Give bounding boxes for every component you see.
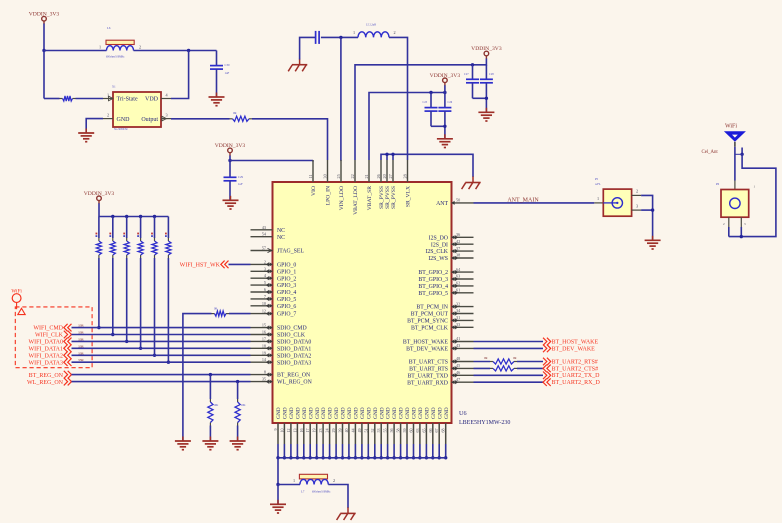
capacitor C (VBAT_LDO b) bbox=[480, 73, 494, 83]
svg-text:31: 31 bbox=[456, 315, 460, 320]
svg-text:68: 68 bbox=[441, 429, 446, 433]
svg-text:2: 2 bbox=[393, 30, 395, 35]
wire node to ferrite bead FB2 bbox=[278, 484, 300, 486]
pin 12 GND (bottom) bbox=[286, 407, 295, 444]
node junction SR_PVSS b bbox=[391, 153, 394, 156]
svg-text:GND: GND bbox=[431, 407, 437, 419]
pin 34 BT_PCM_OUT (right) bbox=[411, 308, 474, 317]
pin 36 I2S_DO (right) bbox=[429, 232, 474, 241]
svg-text:26: 26 bbox=[376, 174, 381, 178]
svg-text:I2S_WS: I2S_WS bbox=[428, 256, 448, 262]
wire pull-up R33 drop bbox=[140, 217, 142, 349]
svg-text:48: 48 bbox=[456, 356, 460, 361]
pin 33 BT_PCM_CLK (right) bbox=[411, 322, 474, 331]
svg-text:23: 23 bbox=[318, 429, 323, 433]
wire capacitor to ground bbox=[216, 69, 218, 97]
node junction pull-up to SDIO line bbox=[139, 347, 142, 350]
capacitor C (VIO decoupling) bbox=[224, 175, 244, 186]
svg-text:7: 7 bbox=[264, 294, 266, 299]
node junction on GND bus bbox=[412, 456, 415, 459]
svg-text:2: 2 bbox=[107, 113, 109, 118]
svg-text:65: 65 bbox=[421, 429, 426, 433]
wire bus down to ground node bbox=[277, 458, 279, 485]
wire SR_PVSS bus to ground bbox=[381, 154, 473, 177]
svg-text:C25: C25 bbox=[423, 101, 428, 104]
svg-text:BT_UART_RTS: BT_UART_RTS bbox=[409, 367, 448, 373]
pin 12 GPIO_7 (left) bbox=[251, 309, 297, 318]
pin 51 GND (bottom) bbox=[363, 407, 372, 444]
svg-text:BT_UART2_RTS#: BT_UART2_RTS# bbox=[552, 359, 598, 365]
node junction SR_PVSS a bbox=[385, 153, 388, 156]
wire GND pin to bus bbox=[290, 444, 292, 458]
svg-text:18: 18 bbox=[262, 343, 266, 348]
wire GND pin to bus bbox=[445, 444, 447, 458]
svg-text:VDDIN_3V3: VDDIN_3V3 bbox=[84, 191, 115, 197]
svg-text:10K: 10K bbox=[214, 404, 219, 407]
svg-text:VDDIN_3V3: VDDIN_3V3 bbox=[215, 143, 246, 149]
wire GND pin to bus bbox=[425, 444, 427, 458]
pin 16 SDIO_CLK (left) bbox=[251, 330, 306, 339]
connector P5 (main antenna) bbox=[595, 177, 632, 216]
svg-text:1: 1 bbox=[353, 30, 355, 35]
node junction shield bbox=[651, 208, 654, 211]
svg-text:LBEE5HY1MW-230: LBEE5HY1MW-230 bbox=[459, 420, 510, 426]
svg-text:LPO_IN: LPO_IN bbox=[326, 186, 332, 205]
node junction (to tri-state VDD) bbox=[187, 49, 190, 52]
wire GND pin to bus bbox=[309, 444, 311, 458]
svg-text:GPIO_5: GPIO_5 bbox=[277, 297, 296, 303]
pin 3 GPIO_1 (left) bbox=[251, 266, 297, 275]
node junction bottom (mid pair) bbox=[443, 125, 446, 128]
node junction on GND bus bbox=[315, 456, 318, 459]
svg-text:57: 57 bbox=[262, 246, 266, 251]
svg-text:53: 53 bbox=[376, 429, 381, 433]
svg-text:GND: GND bbox=[296, 407, 302, 419]
antenna WiFi label bbox=[725, 124, 737, 130]
node junction on pull-up bus bbox=[139, 215, 142, 218]
svg-text:10: 10 bbox=[279, 429, 284, 433]
svg-text:SR_PVSS: SR_PVSS bbox=[391, 186, 397, 209]
wire BT_REG_ON pulldown drop bbox=[209, 375, 211, 441]
svg-text:55: 55 bbox=[383, 429, 388, 433]
wire ground up to capacitor bbox=[300, 37, 316, 59]
pin 46 BT_UART_TXD (right) bbox=[407, 370, 473, 379]
svg-text:44: 44 bbox=[350, 429, 355, 433]
node WIFI_DATA3 label bbox=[28, 358, 71, 366]
svg-text:1: 1 bbox=[597, 196, 599, 201]
svg-text:BT_DEV_WAKE: BT_DEV_WAKE bbox=[552, 346, 596, 352]
svg-text:VDDIN_3V3: VDDIN_3V3 bbox=[430, 73, 461, 79]
resistor R32 (pull-up) bbox=[123, 233, 129, 258]
svg-text:16: 16 bbox=[299, 429, 304, 433]
pin 35 WL_REG_ON (left) bbox=[251, 377, 313, 386]
svg-text:56: 56 bbox=[389, 429, 394, 433]
wire GND bus bbox=[278, 457, 446, 459]
pin 17 GND (bottom) bbox=[305, 407, 314, 444]
power port VDDIN_3V3 (SDIO pull-ups) bbox=[84, 191, 115, 204]
svg-text:C27: C27 bbox=[464, 73, 469, 76]
svg-text:45: 45 bbox=[456, 363, 460, 368]
pin 17 SDIO_DATA0 (left) bbox=[251, 336, 312, 345]
node WL_REG_ON junction bbox=[236, 380, 239, 383]
svg-text:BT_GPIO_2: BT_GPIO_2 bbox=[418, 270, 448, 276]
resistor R (LPO series) bbox=[230, 111, 253, 121]
wire pull-up R31 drop bbox=[112, 217, 114, 335]
node junction at top rail bbox=[42, 49, 45, 52]
svg-text:43: 43 bbox=[262, 225, 266, 230]
wire GND pin to bus bbox=[393, 444, 395, 458]
pin 44 GND (bottom) bbox=[350, 407, 359, 444]
svg-text:Output: Output bbox=[141, 117, 158, 123]
oscillator U (Tri-State VDD / GND Output) bbox=[112, 85, 161, 131]
svg-text:BT_REG_ON: BT_REG_ON bbox=[277, 373, 311, 379]
wire resistor to BT_UART2_CTS# label bbox=[517, 367, 543, 369]
node junction on GND bus bbox=[341, 456, 344, 459]
svg-text:GND: GND bbox=[334, 407, 340, 419]
pin 27 SR_PVSS (top) bbox=[388, 160, 397, 209]
wire WIFI_HST_WK to GPIO_0 bbox=[229, 263, 251, 265]
node junction on GND bus bbox=[438, 456, 441, 459]
svg-text:SDIO_DATA3: SDIO_DATA3 bbox=[277, 360, 311, 366]
svg-text:SDIO_DATA0: SDIO_DATA0 bbox=[277, 340, 311, 346]
svg-text:3: 3 bbox=[165, 113, 167, 118]
svg-text:33R: 33R bbox=[78, 337, 84, 341]
svg-text:GPIO_6: GPIO_6 bbox=[277, 304, 296, 310]
svg-text:C26: C26 bbox=[448, 101, 453, 104]
svg-text:41: 41 bbox=[456, 336, 460, 341]
svg-text:2: 2 bbox=[139, 45, 141, 50]
svg-text:GND: GND bbox=[360, 407, 366, 419]
wire GND pin to bus bbox=[342, 444, 344, 458]
node junction on GND bus bbox=[296, 456, 299, 459]
svg-text:33R: 33R bbox=[78, 351, 84, 355]
svg-text:WIFI_DATA1: WIFI_DATA1 bbox=[28, 346, 63, 352]
pin 43 BT_DEV_WAKE (right) bbox=[406, 343, 473, 352]
svg-text:GND: GND bbox=[418, 407, 424, 419]
capacitor C (osc rail decoupling) bbox=[210, 63, 230, 75]
svg-text:GND: GND bbox=[399, 407, 405, 419]
pin 22 VBAT_LDO (top) bbox=[350, 160, 359, 215]
wire BT_UART_CTS to resistor bbox=[474, 361, 491, 363]
wire resistor to ground drop bbox=[183, 314, 212, 441]
svg-text:13: 13 bbox=[292, 429, 297, 433]
svg-text:16: 16 bbox=[262, 330, 266, 335]
svg-text:600ohm/100MHz: 600ohm/100MHz bbox=[106, 56, 125, 59]
pin 18 SDIO_DATA1 (left) bbox=[251, 343, 312, 352]
svg-text:0R: 0R bbox=[233, 111, 237, 115]
svg-text:33R: 33R bbox=[78, 344, 84, 348]
op IC U6 body bbox=[273, 182, 511, 426]
pin 31 BT_PCM_SYNC (right) bbox=[407, 315, 473, 324]
svg-text:SG-3030CM: SG-3030CM bbox=[114, 128, 128, 131]
svg-text:GND: GND bbox=[315, 407, 321, 419]
ground (bar) under VIO cap bbox=[223, 196, 239, 209]
wire VDDIN_3V3 stem down bbox=[43, 24, 45, 51]
pin 49 GND (bottom) bbox=[357, 407, 366, 444]
pin 19 GND (bottom) bbox=[312, 407, 321, 444]
wire pins to loop bbox=[729, 227, 742, 237]
svg-text:C29: C29 bbox=[238, 175, 244, 179]
svg-text:WL_REG_ON: WL_REG_ON bbox=[277, 380, 313, 386]
svg-text:BT_UART_CTS: BT_UART_CTS bbox=[409, 360, 448, 366]
svg-text:WIFI_CLK: WIFI_CLK bbox=[35, 333, 64, 339]
pin 2 of oscillator bbox=[103, 113, 113, 119]
node junction loop bbox=[740, 235, 743, 238]
svg-text:BT_PCM_OUT: BT_PCM_OUT bbox=[411, 312, 449, 318]
svg-text:8: 8 bbox=[264, 370, 266, 375]
svg-text:10: 10 bbox=[262, 301, 266, 306]
node junction on GND bus bbox=[380, 456, 383, 459]
wire BT_UART_RXD bbox=[474, 381, 544, 383]
pin 62 BT_GPIO_4 (right) bbox=[418, 281, 473, 290]
svg-text:GND: GND bbox=[117, 117, 131, 123]
wire oscillator GND pin to ground bbox=[86, 119, 103, 133]
wire WL_REG_ON pulldown drop bbox=[237, 382, 239, 441]
wire BT_UART_TXD bbox=[474, 374, 544, 376]
svg-text:60: 60 bbox=[409, 429, 414, 433]
svg-text:BT_GPIO_5: BT_GPIO_5 bbox=[418, 291, 448, 297]
pin 61 BT_GPIO_5 (right) bbox=[418, 288, 473, 297]
svg-text:30: 30 bbox=[322, 174, 327, 178]
wire capacitor to junction bbox=[321, 36, 358, 38]
node junction on pull-up bus bbox=[111, 215, 114, 218]
node junction on GND bus bbox=[302, 456, 305, 459]
node BT_REG_ON junction bbox=[209, 373, 212, 376]
resistor R (WL_REG_ON pulldown) bbox=[235, 399, 246, 426]
svg-text:BT_GPIO_3: BT_GPIO_3 bbox=[418, 277, 448, 283]
capacitor C (series, top filter) bbox=[316, 31, 320, 44]
node junction pull-up to SDIO line bbox=[167, 361, 170, 364]
node junction pull-up to SDIO line bbox=[153, 354, 156, 357]
wire WIFI_DATA1 to SDIO pin bbox=[72, 344, 251, 348]
node junction on GND bus bbox=[373, 456, 376, 459]
ground (bar) GPIO_7 bbox=[175, 437, 191, 450]
capacitor C (VBAT_SR a) bbox=[423, 101, 438, 111]
ground (bar) right pair bbox=[478, 108, 494, 121]
svg-text:24: 24 bbox=[325, 429, 330, 433]
svg-text:SDIO_CLK: SDIO_CLK bbox=[277, 333, 306, 339]
svg-text:NC: NC bbox=[277, 235, 285, 241]
ground (bar) mid pair bbox=[437, 134, 453, 147]
wire VDD branch down to tri-state pin 4 bbox=[171, 51, 189, 99]
pin 26 SR_PVSS (top) bbox=[376, 160, 385, 209]
pin 28 SR_VLX (top) bbox=[402, 160, 411, 207]
svg-text:20: 20 bbox=[382, 174, 387, 178]
pin 5 GPIO_3 (left) bbox=[251, 280, 297, 289]
pin 10 GPIO_6 (left) bbox=[251, 301, 297, 310]
node WIFI_DATA2 label bbox=[28, 352, 71, 360]
svg-text:L5 2.2uH: L5 2.2uH bbox=[366, 24, 376, 27]
ground (bar) digital bbox=[270, 500, 286, 513]
svg-text:VDD: VDD bbox=[145, 97, 159, 103]
svg-text:27: 27 bbox=[388, 174, 393, 178]
svg-text:33: 33 bbox=[456, 322, 460, 327]
node junction VIO bbox=[228, 159, 231, 162]
pin 13 GND (bottom) bbox=[292, 407, 301, 444]
svg-text:C28: C28 bbox=[489, 73, 494, 76]
svg-text:GND: GND bbox=[366, 407, 372, 419]
pin 3 of connector P6 bbox=[741, 217, 746, 227]
svg-text:33R: 33R bbox=[78, 358, 84, 362]
svg-text:X1: X1 bbox=[112, 85, 116, 89]
svg-text:GND: GND bbox=[437, 407, 443, 419]
svg-text:0R: 0R bbox=[484, 356, 488, 360]
wire WIFI_DATA2 to SDIO pin bbox=[72, 351, 251, 355]
pin 4 GPIO_2 (left) bbox=[251, 273, 297, 282]
svg-text:51: 51 bbox=[363, 429, 368, 433]
node junction on pull-up bus bbox=[125, 215, 128, 218]
pin 47 BT_UART_RXD (right) bbox=[407, 377, 473, 386]
svg-text:GND: GND bbox=[405, 407, 411, 419]
ground (earth) left of C bbox=[288, 59, 307, 72]
svg-text:5: 5 bbox=[264, 280, 266, 285]
node BT_UART2_CTS# label bbox=[543, 365, 598, 373]
svg-text:I2S_DO: I2S_DO bbox=[429, 235, 448, 241]
pin 58 GND (bottom) bbox=[396, 407, 405, 444]
node junction pull-up to SDIO line bbox=[125, 340, 128, 343]
svg-text:33R: 33R bbox=[78, 331, 84, 335]
svg-text:32: 32 bbox=[456, 301, 460, 306]
node junction pull-up to SDIO line bbox=[97, 326, 100, 329]
svg-text:JTAG_SEL: JTAG_SEL bbox=[277, 249, 304, 255]
capacitor C (VBAT_LDO a) bbox=[464, 73, 479, 83]
svg-text:36: 36 bbox=[456, 232, 460, 237]
wire top rail to ferrite bead bbox=[44, 50, 107, 52]
wire cap leads (right pair) bbox=[473, 65, 487, 80]
ground (bar) WL_REG_ON bbox=[230, 437, 246, 450]
svg-text:1: 1 bbox=[99, 45, 101, 50]
power port VDDIN_3V3 (top left) bbox=[29, 11, 60, 24]
svg-text:46: 46 bbox=[456, 370, 460, 375]
wire GND pin to bus bbox=[406, 444, 408, 458]
svg-text:I2S_DI: I2S_DI bbox=[431, 242, 448, 248]
wire GND pin to bus bbox=[387, 444, 389, 458]
pin 64 BT_GPIO_2 (right) bbox=[418, 267, 473, 276]
pin 32 BT_PCM_IN (right) bbox=[416, 301, 473, 310]
pin 1 of connector P5 bbox=[594, 196, 603, 203]
power port VDDIN_3V3 (VIO) bbox=[215, 143, 246, 156]
svg-text:P5: P5 bbox=[595, 177, 599, 181]
node junction stem/rail bbox=[443, 91, 446, 94]
wire pull-up R35 drop bbox=[167, 217, 169, 363]
node junction on GND bus bbox=[444, 456, 447, 459]
wire left rail down to resistor bbox=[44, 51, 60, 99]
wire GND pin to bus bbox=[380, 444, 382, 458]
pin 15 SDIO_CMD (left) bbox=[251, 323, 307, 332]
svg-text:33R: 33R bbox=[78, 324, 84, 328]
ferrite bead FB1 bbox=[44, 26, 141, 59]
node junction on GND bus bbox=[392, 456, 395, 459]
svg-text:ANT_MAIN: ANT_MAIN bbox=[507, 197, 539, 203]
wire GND pin to bus bbox=[413, 444, 415, 458]
wire GND pin to bus bbox=[329, 444, 331, 458]
svg-text:29: 29 bbox=[331, 429, 336, 433]
pin 30 LPO_IN (top) bbox=[322, 160, 331, 205]
pin 19 SDIO_DATA2 (left) bbox=[251, 350, 312, 359]
pin 39 GND (bottom) bbox=[338, 407, 347, 444]
wire GND pin to bus bbox=[348, 444, 350, 458]
svg-text:C30: C30 bbox=[225, 63, 231, 67]
svg-text:VBAT_LDO: VBAT_LDO bbox=[353, 186, 359, 215]
svg-text:49: 49 bbox=[357, 429, 362, 433]
ferrite bead FB2 bbox=[293, 474, 335, 493]
node Cel_Ant net name bbox=[702, 150, 719, 155]
wire GPIO_7 to resistor bbox=[229, 313, 251, 315]
wire ground loop bbox=[729, 154, 776, 236]
wire node down to bar ground bbox=[277, 485, 279, 505]
svg-text:38: 38 bbox=[456, 253, 460, 258]
wire down to capacitor bbox=[229, 161, 231, 178]
wire WIFI_DATA3 to SDIO pin bbox=[72, 358, 251, 362]
svg-text:I2S_CLK: I2S_CLK bbox=[425, 249, 448, 255]
wire BT_HOST_WAKE bbox=[474, 341, 544, 343]
pin 10 GND (bottom) bbox=[279, 407, 288, 444]
node junction on GND bus bbox=[386, 456, 389, 459]
node BT_UART2_RX_D label bbox=[543, 378, 600, 386]
wire oscillator output to resistor bbox=[171, 118, 230, 120]
node junction on pull-up bus bbox=[153, 215, 156, 218]
wire junction down to VIN_LDO pin bbox=[340, 37, 342, 161]
wire pull-up R32 drop bbox=[126, 217, 128, 342]
pin 37 I2S_CLK (right) bbox=[425, 246, 473, 255]
svg-text:VIN_LDO: VIN_LDO bbox=[339, 186, 345, 210]
svg-text:SR_VLX: SR_VLX bbox=[406, 186, 412, 207]
node WL_REG_ON label bbox=[27, 378, 72, 386]
svg-text:BT_UART_RXD: BT_UART_RXD bbox=[407, 380, 448, 386]
wire BT_REG_ON bbox=[72, 374, 251, 376]
svg-text:6: 6 bbox=[264, 287, 266, 292]
svg-text:VBAT_SR: VBAT_SR bbox=[367, 186, 373, 211]
ground (earth) after FB2 bbox=[337, 507, 356, 520]
pin 52 GND (bottom) bbox=[370, 407, 379, 444]
svg-text:17: 17 bbox=[262, 336, 266, 341]
node ANT_MAIN net name bbox=[507, 197, 539, 203]
svg-text:0R: 0R bbox=[214, 308, 217, 311]
pin 1 of connector P6 bbox=[735, 181, 756, 190]
resistor R35 (pull-up) bbox=[165, 233, 171, 258]
wire FB2 to earth ground bbox=[328, 485, 348, 509]
svg-text:GPIO_4: GPIO_4 bbox=[277, 290, 296, 296]
node WIFI_HST_WK label bbox=[180, 261, 229, 269]
resistor R34 (pull-up) bbox=[151, 233, 157, 258]
node junction VIN_LDO bbox=[339, 36, 342, 39]
pin 2 of connector P5 bbox=[632, 189, 642, 196]
svg-text:21: 21 bbox=[364, 174, 369, 178]
svg-text:u.FL: u.FL bbox=[595, 182, 601, 186]
ground (bar) connector P5 bbox=[645, 236, 661, 249]
svg-text:19: 19 bbox=[312, 429, 317, 433]
wire GND pin to bus bbox=[277, 444, 279, 458]
wire capacitor to ground bbox=[229, 181, 231, 201]
svg-text:10K: 10K bbox=[241, 404, 246, 407]
pin 43 NC (left) bbox=[251, 225, 286, 234]
wire stub + node junction (loop tap) bbox=[735, 148, 744, 157]
svg-text:GND: GND bbox=[289, 407, 295, 419]
svg-text:47: 47 bbox=[456, 377, 460, 382]
wire GND pin to bus bbox=[283, 444, 285, 458]
resistor R (UART CTS series) bbox=[490, 366, 517, 371]
pin 7 GPIO_5 (left) bbox=[251, 294, 297, 303]
svg-text:9: 9 bbox=[273, 429, 278, 431]
svg-text:2: 2 bbox=[333, 478, 335, 483]
node junction left cap (mid) bbox=[429, 91, 432, 94]
node BT_UART2_RTS# label bbox=[543, 358, 598, 366]
wire GND pin to bus bbox=[316, 444, 318, 458]
node junction on GND bus bbox=[334, 456, 337, 459]
resistor R31 (pull-up) bbox=[109, 233, 115, 258]
svg-text:GND: GND bbox=[341, 407, 347, 419]
node junction on GND bus bbox=[321, 456, 324, 459]
